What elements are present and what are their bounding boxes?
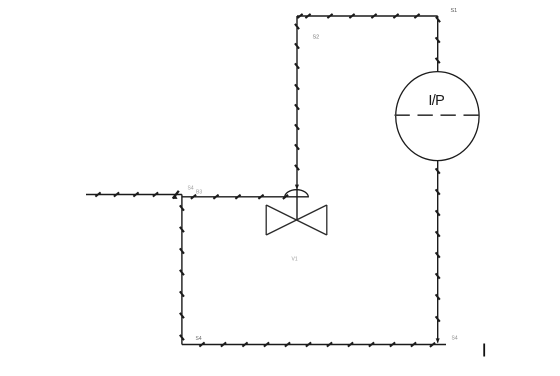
svg-text:V1: V1 bbox=[292, 257, 298, 263]
svg-text:S4: S4 bbox=[452, 336, 458, 342]
svg-text:B3: B3 bbox=[196, 190, 202, 196]
svg-text:S1: S1 bbox=[451, 8, 458, 14]
svg-text:I/P: I/P bbox=[428, 93, 444, 109]
svg-text:S2: S2 bbox=[313, 35, 320, 41]
svg-text:S4: S4 bbox=[196, 336, 202, 342]
svg-text:S4: S4 bbox=[188, 186, 194, 192]
